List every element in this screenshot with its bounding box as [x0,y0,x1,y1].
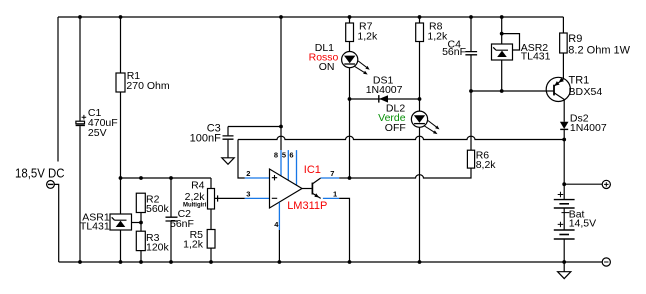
label C4 value [442,38,466,57]
resistor R9 [560,17,568,78]
label R9 value [568,33,630,57]
svg-text:1,2k: 1,2k [357,30,378,42]
capacitor C1 [76,17,87,262]
wire left input stub [57,17,59,162]
svg-text:BD: BD [569,86,584,98]
wire top supply rail [58,16,563,18]
svg-text:1: 1 [333,189,337,198]
resistor R7 [346,17,354,52]
svg-text:3: 3 [246,190,250,199]
svg-text:IC1: IC1 [304,164,321,176]
svg-text:270 Ohm: 270 Ohm [126,80,169,92]
svg-text:R4: R4 [191,179,205,191]
trimmer R4 [208,178,245,209]
svg-text:2,2k: 2,2k [185,191,206,203]
wire reference row [121,177,212,179]
pin 1 wire to ground rail [323,198,350,262]
svg-text:LM311P: LM311P [287,200,327,212]
label R7 value [357,21,378,43]
svg-text:1N4007: 1N4007 [570,122,607,134]
label R2 value [146,194,170,216]
svg-text:8.2 Ohm 1W: 8.2 Ohm 1W [568,45,630,57]
terminal input minus [47,181,55,189]
wire bottom ground rail [59,261,603,263]
wire battery sense row with hops [238,136,564,139]
svg-text:6: 6 [289,151,293,160]
svg-text:TL431: TL431 [80,220,110,232]
svg-text:7: 7 [330,169,334,178]
svg-text:8: 8 [274,151,278,160]
resistor R5 [207,209,215,262]
ground under C3 [222,158,234,165]
op-amp output transistor [302,178,321,198]
resistor R1 [116,17,125,178]
op-amp IC1 comparator triangle [270,169,303,208]
svg-text:TR1: TR1 [569,75,590,87]
wire pin 7 row to R6 with hop [350,168,472,178]
wire TR1 base row [471,90,546,92]
svg-text:560k: 560k [146,203,170,215]
label Bat 14,5V [569,208,596,229]
wire to positive terminal [564,183,602,185]
diode DS1 [350,95,420,103]
svg-text:25V: 25V [88,127,107,139]
ground at battery [558,262,571,279]
svg-text:OFF: OFF [385,122,406,134]
capacitor C4 [465,17,477,150]
resistor R8 [416,17,424,99]
svg-text:2: 2 [246,169,250,178]
label R3 value [146,232,170,254]
junction dots middle nodes [119,32,566,225]
resistor R2 [136,193,145,231]
svg-text:R9: R9 [568,33,582,45]
label C2 value [170,208,194,230]
svg-text:120k: 120k [146,241,170,253]
label TR1 BDX54 [569,75,603,98]
led DL2 [411,99,439,262]
terminal output plus [602,180,610,188]
pin 7 wire [321,177,350,179]
svg-text:14,5V: 14,5V [569,217,596,229]
label C1 value [88,107,118,139]
pin 6 stub [296,150,298,185]
svg-text:ON: ON [319,61,335,73]
resistor R3 [136,231,145,262]
svg-text:56nF: 56nF [442,46,466,58]
wire C3 to V+ node [228,126,281,128]
pin 3 wire [245,197,270,199]
pin 8 stub [280,150,282,176]
label R5 value [183,229,204,251]
terminal output minus [602,258,610,266]
svg-text:1,2k: 1,2k [427,30,448,42]
svg-text:TL431: TL431 [521,51,551,63]
label ASR1 TL431 [80,212,110,233]
label R6 value [476,149,497,170]
transistor TR1 BDX54 [546,77,570,101]
svg-text:X54: X54 [584,86,603,98]
junction dots top rail [78,15,504,19]
pin 4 wire to ground rail [278,202,280,262]
label C3 value [190,123,221,145]
battery Bat 14,5V [554,192,575,262]
wire input terminal to bottom rail [54,184,58,262]
pin labels 8 5 6 [274,151,294,160]
svg-text:100nF: 100nF [190,133,221,145]
labels DL1 Rosso ON [309,42,339,73]
svg-text:1N4007: 1N4007 [366,84,403,96]
capacitor C2 [166,178,178,262]
label ASR2 TL431 [521,42,551,63]
labels DL2 Verde OFF [378,102,406,134]
svg-text:1,2k: 1,2k [183,239,204,251]
shunt regulator ASR1 TL431 [110,178,141,262]
svg-text:Multigiri: Multigiri [183,202,207,208]
wire battery column [563,140,565,200]
svg-text:8,2k: 8,2k [476,159,497,171]
label R1 value [126,70,169,92]
pin 2 wire [245,177,270,179]
label Ds2 value [570,112,607,134]
diode Ds2 [560,100,569,140]
led DL1 [342,52,370,179]
svg-text:5: 5 [282,151,286,160]
svg-text:18,5V DC: 18,5V DC [15,166,65,180]
resistor R6 [467,150,474,168]
pin 5 stub [287,150,289,180]
capacitor C3 [223,127,234,158]
wire V+ feed to pin 8 [280,17,282,150]
label R4 value Multigiri [183,179,207,208]
label DS1 value [366,74,403,96]
label R8 value [427,21,448,43]
shunt regulator ASR2 TL431 [492,17,520,91]
junction dots bottom rail [78,260,566,264]
wire pin 2 from sense row [238,140,245,179]
